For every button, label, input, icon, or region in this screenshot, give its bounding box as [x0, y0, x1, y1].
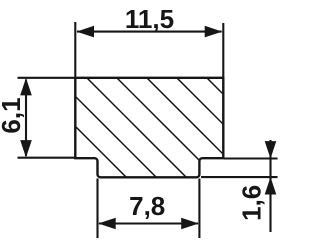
svg-text:7,8: 7,8 — [129, 191, 165, 221]
svg-text:11,5: 11,5 — [125, 4, 174, 34]
svg-text:1,6: 1,6 — [237, 185, 267, 221]
svg-text:6,1: 6,1 — [0, 97, 26, 133]
